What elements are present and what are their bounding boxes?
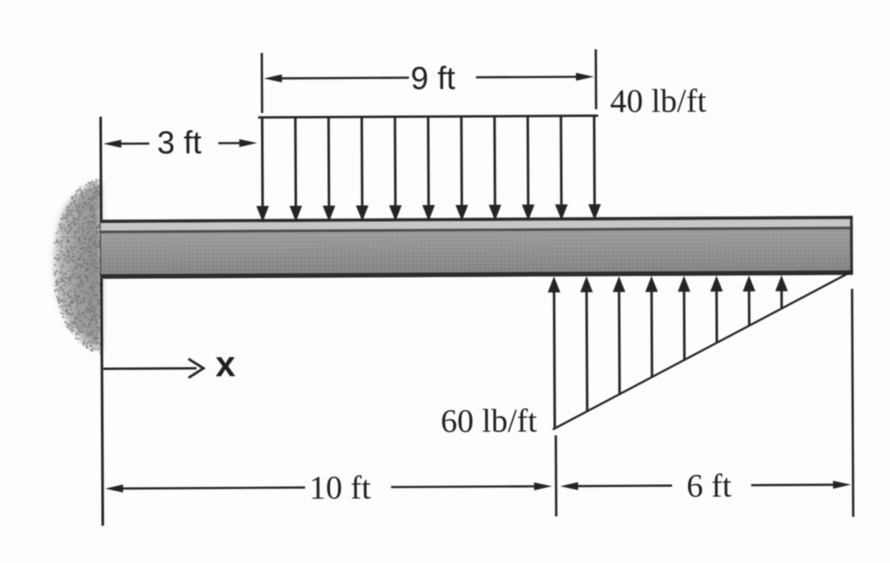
triangular load arrows	[548, 275, 789, 428]
svg-text:6 ft: 6 ft	[687, 469, 732, 505]
wall shading blob	[51, 179, 103, 354]
dimension 6 ft	[559, 289, 853, 519]
uniform load w = 40 lb/ft : top line	[258, 116, 598, 118]
triangular load hypotenuse	[552, 271, 854, 430]
dimension 3 ft	[103, 124, 257, 161]
dimension 9 ft	[262, 49, 596, 113]
svg-text:x: x	[215, 343, 235, 384]
svg-text:60 lb/ft: 60 lb/ft	[441, 404, 537, 441]
fixed-support wall line	[101, 117, 103, 526]
x axis arrow	[103, 343, 235, 385]
svg-text:9 ft: 9 ft	[411, 60, 456, 96]
svg-text:10 ft: 10 ft	[309, 470, 371, 506]
svg-text:40 lb/ft: 40 lb/ft	[610, 84, 706, 121]
dimension 10 ft	[105, 435, 556, 518]
svg-text:3 ft: 3 ft	[157, 124, 202, 160]
beam	[101, 216, 853, 279]
uniform load arrows	[256, 116, 601, 222]
